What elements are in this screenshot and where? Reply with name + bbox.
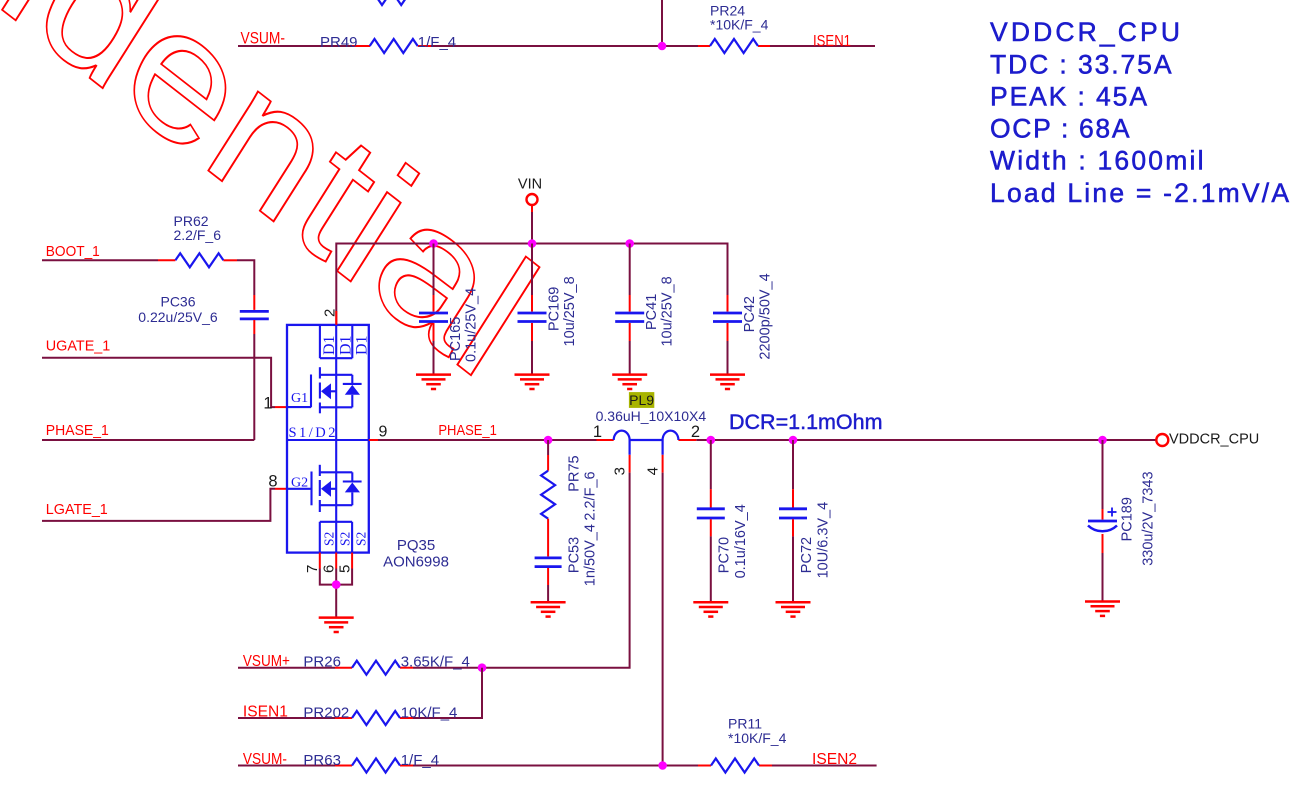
junction PC41	[625, 239, 634, 248]
svg-text:DCR=1.1mOhm: DCR=1.1mOhm	[729, 410, 883, 434]
transistor PQ35 package outline	[287, 325, 369, 553]
wire PHASE_1 left	[42, 439, 254, 441]
capacitor PC72	[779, 440, 831, 602]
svg-text:330u/2V_7343: 330u/2V_7343	[1141, 471, 1157, 565]
pin 8 stub	[275, 488, 287, 490]
svg-text:0.1u/16V_4: 0.1u/16V_4	[733, 504, 749, 578]
resistor PR62	[175, 253, 223, 267]
capacitor PC41	[615, 244, 676, 375]
svg-text:AON6998: AON6998	[383, 554, 449, 571]
resistor PR24	[710, 39, 758, 53]
svg-text:PC165: PC165	[448, 317, 464, 361]
svg-text:VSUM-: VSUM-	[243, 751, 287, 768]
svg-text:7: 7	[304, 565, 321, 573]
svg-text:8: 8	[268, 473, 277, 491]
svg-text:UGATE_1: UGATE_1	[46, 338, 111, 355]
svg-text:PQ35: PQ35	[397, 537, 435, 554]
body diode M2	[345, 483, 360, 493]
svg-text:PHASE_1: PHASE_1	[46, 422, 109, 439]
terminal VDDCR_CPU	[1156, 434, 1168, 446]
resistor PR49	[370, 39, 418, 53]
wire VSUM- row	[238, 765, 877, 767]
arrow M1	[321, 383, 331, 399]
svg-text:S1/D2: S1/D2	[289, 425, 336, 441]
resistor PR49 pins	[352, 45, 431, 47]
svg-text:1: 1	[263, 395, 272, 413]
svg-text:2.2/F_6: 2.2/F_6	[174, 227, 222, 243]
svg-text:10u/25V_8: 10u/25V_8	[562, 276, 578, 346]
svg-text:2.2/F_6: 2.2/F_6	[583, 471, 599, 520]
wire ISEN1 row	[238, 668, 482, 718]
svg-text:ISEN2: ISEN2	[812, 751, 857, 768]
svg-text:VDDCR_CPU: VDDCR_CPU	[1169, 432, 1259, 448]
S2 pin boxes	[320, 522, 352, 553]
ground PC70	[693, 602, 728, 616]
junction PC72	[789, 436, 798, 445]
info text block	[990, 17, 1289, 208]
wire VSUM+ row left	[238, 667, 335, 669]
wire VIN stub	[531, 205, 533, 212]
svg-text:5: 5	[337, 565, 354, 573]
svg-text:PHASE_1: PHASE_1	[438, 422, 497, 439]
svg-text:VIN: VIN	[518, 177, 542, 193]
svg-text:1n/50V_4: 1n/50V_4	[583, 524, 599, 586]
svg-text:2: 2	[322, 309, 339, 317]
pin 9 stub	[369, 439, 378, 441]
mosfet M2 lower	[287, 465, 362, 512]
capacitor PC70	[697, 440, 749, 602]
resistor PR202	[352, 711, 400, 725]
svg-text:PL9: PL9	[629, 392, 654, 408]
highlight PL9	[629, 392, 654, 408]
resistor PR63	[352, 759, 400, 773]
svg-text:*10K/F_4: *10K/F_4	[710, 17, 769, 33]
arrow M2	[321, 481, 331, 497]
capacitor PC36	[240, 311, 269, 319]
junction VIN/PC169	[528, 239, 537, 248]
resistor PR62 pins	[158, 260, 254, 310]
svg-text:PC189: PC189	[1120, 497, 1136, 541]
svg-text:PR63: PR63	[303, 752, 341, 769]
row VSUM+ resistor PR26 pins	[335, 667, 413, 669]
svg-text:VDDCR_CPU: VDDCR_CPU	[990, 17, 1180, 47]
svg-text:1/F_4: 1/F_4	[401, 752, 439, 769]
wire BOOT_1	[42, 260, 254, 295]
svg-text:2200p/50V_4: 2200p/50V_4	[758, 273, 774, 359]
capacitor PC165	[419, 244, 480, 375]
svg-text:1/F_4: 1/F_4	[418, 34, 456, 51]
ground PC169	[515, 375, 550, 389]
labels D1 D1 D1	[321, 335, 370, 355]
svg-text:0.1u/25V_4: 0.1u/25V_4	[464, 288, 480, 362]
svg-text:D1: D1	[337, 335, 354, 355]
D1 pin boxes	[320, 325, 352, 358]
wire LGATE_1	[42, 489, 275, 521]
junction VSUM+/ISEN1	[478, 663, 487, 672]
svg-text:PC36: PC36	[160, 294, 195, 310]
wire UGATE_1	[42, 358, 275, 407]
pin stubs 7 6 5	[320, 553, 352, 569]
svg-text:ISEN1: ISEN1	[813, 33, 851, 50]
resistor PR63 pins	[335, 765, 413, 767]
junction PR75	[544, 436, 553, 445]
svg-text:PC53: PC53	[567, 537, 583, 573]
svg-text:*10K/F_4: *10K/F_4	[728, 730, 787, 746]
svg-text:S2: S2	[338, 532, 353, 546]
ground PQ35	[319, 618, 354, 632]
svg-text:PR49: PR49	[320, 34, 358, 51]
svg-text:BOOT_1: BOOT_1	[46, 243, 100, 260]
labels S2 S2 S2	[321, 532, 368, 546]
wire PC36 bottom to PHASE_1	[253, 320, 255, 334]
pin 1 stub	[275, 406, 287, 408]
ground PC41	[612, 375, 647, 389]
svg-text:PR75: PR75	[567, 455, 583, 491]
inductor PL9	[614, 431, 679, 455]
ground PC165	[416, 375, 451, 389]
svg-text:PC70: PC70	[717, 537, 733, 573]
junction top row	[658, 42, 667, 51]
svg-text:2: 2	[691, 423, 700, 441]
ground PC189	[1085, 602, 1120, 616]
svg-text:Load Line = -2.1mV/A: Load Line = -2.1mV/A	[990, 178, 1289, 208]
svg-text:S2: S2	[321, 532, 336, 546]
svg-text:3: 3	[612, 467, 629, 475]
svg-text:TDC : 33.75A: TDC : 33.75A	[990, 50, 1172, 80]
capacitor PC189	[1088, 440, 1157, 602]
svg-text:1: 1	[593, 423, 602, 441]
svg-text:PR202: PR202	[303, 704, 349, 721]
junction PC70	[707, 436, 716, 445]
wire vertical from top edge to top row junction	[661, 0, 663, 46]
junction source	[332, 580, 341, 589]
svg-text:PC41: PC41	[644, 294, 660, 330]
svg-text:ISEN1: ISEN1	[243, 704, 288, 721]
resistor PR202 pins	[335, 717, 413, 719]
wire pin3 riser	[413, 473, 630, 668]
partial resistor fragment at top edge	[372, 0, 410, 5]
inductor PL9 pins	[597, 440, 697, 473]
wire pin4 riser	[662, 473, 664, 766]
svg-text:D1: D1	[354, 335, 371, 355]
svg-text:3.65K/F_4: 3.65K/F_4	[401, 654, 470, 671]
junction PC165	[429, 239, 438, 248]
junction pin4/VSUM-	[658, 761, 667, 770]
S1/D2 divider	[287, 439, 369, 441]
wire VIN bus	[336, 244, 727, 326]
svg-text:Width : 1600mil: Width : 1600mil	[990, 146, 1204, 176]
svg-text:VSUM-: VSUM-	[241, 29, 286, 48]
svg-text:10U/6.3V_4: 10U/6.3V_4	[815, 502, 831, 579]
svg-text:4: 4	[645, 467, 662, 475]
svg-text:PC72: PC72	[799, 537, 815, 573]
resistor PR26	[352, 661, 400, 675]
svg-text:0.36uH_10X10X4: 0.36uH_10X10X4	[596, 408, 707, 424]
svg-text:PEAK : 45A: PEAK : 45A	[990, 82, 1147, 112]
capacitor PC42	[713, 244, 774, 375]
resistor PR11 pins	[698, 765, 772, 767]
center drain/source vertical	[335, 358, 337, 552]
svg-text:9: 9	[379, 424, 388, 441]
capacitor PC53	[535, 524, 599, 602]
resistor PR24 pins	[698, 45, 770, 47]
wires pins to gnd junction	[320, 569, 352, 618]
pin 2 wire	[335, 311, 337, 325]
svg-text:PC42: PC42	[742, 296, 758, 332]
svg-text:G1: G1	[291, 391, 308, 406]
svg-text:G2: G2	[291, 476, 308, 491]
terminal VIN	[527, 194, 538, 205]
svg-text:S2: S2	[354, 532, 369, 546]
svg-text:0.22u/25V_6: 0.22u/25V_6	[138, 309, 218, 325]
resistor PR11	[711, 759, 759, 773]
ground PC53	[531, 602, 566, 616]
svg-text:PR26: PR26	[303, 654, 341, 671]
wire top row VSUM- to ISEN1	[238, 45, 875, 47]
svg-text:10K/F_4: 10K/F_4	[401, 704, 458, 721]
capacitor PC169	[518, 244, 579, 375]
ground PC72	[776, 602, 811, 616]
watermark Confidential	[0, 0, 551, 430]
body diode M1	[345, 385, 360, 395]
ground PC42	[710, 375, 745, 389]
op mosfet M1 upper	[287, 367, 362, 413]
svg-text:10u/25V_8: 10u/25V_8	[660, 276, 676, 346]
svg-text:LGATE_1: LGATE_1	[46, 501, 108, 518]
svg-text:D1: D1	[321, 335, 338, 355]
junction PC189	[1098, 436, 1107, 445]
wire PHASE_1 main	[378, 439, 1156, 441]
svg-text:6: 6	[321, 565, 338, 573]
svg-text:VSUM+: VSUM+	[243, 653, 290, 670]
svg-text:PC169: PC169	[547, 287, 563, 331]
resistor PR75	[541, 440, 598, 556]
